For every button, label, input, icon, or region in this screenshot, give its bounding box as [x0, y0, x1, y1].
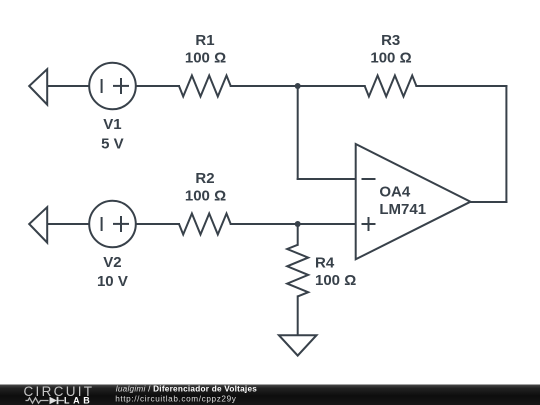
- svg-text:100 Ω: 100 Ω: [315, 272, 356, 289]
- svg-text:LM741: LM741: [379, 201, 426, 218]
- svg-text:V1: V1: [103, 116, 121, 133]
- svg-text:lualgimi / Diferenciador de Vo: lualgimi / Diferenciador de Voltajes: [116, 384, 257, 393]
- svg-text:R2: R2: [195, 170, 214, 187]
- svg-text:R4: R4: [315, 254, 335, 271]
- svg-text:http://circuitlab.com/cppz29y: http://circuitlab.com/cppz29y: [115, 394, 237, 403]
- svg-text:100 Ω: 100 Ω: [185, 188, 226, 205]
- svg-text:OA4: OA4: [379, 183, 411, 200]
- svg-text:100 Ω: 100 Ω: [185, 50, 226, 67]
- svg-text:100 Ω: 100 Ω: [370, 50, 411, 67]
- svg-text:V2: V2: [103, 254, 121, 271]
- svg-text:R3: R3: [381, 32, 400, 49]
- svg-text:R1: R1: [195, 32, 214, 49]
- svg-text:LAB: LAB: [64, 395, 93, 405]
- svg-text:10 V: 10 V: [97, 273, 128, 290]
- svg-text:5 V: 5 V: [101, 136, 124, 153]
